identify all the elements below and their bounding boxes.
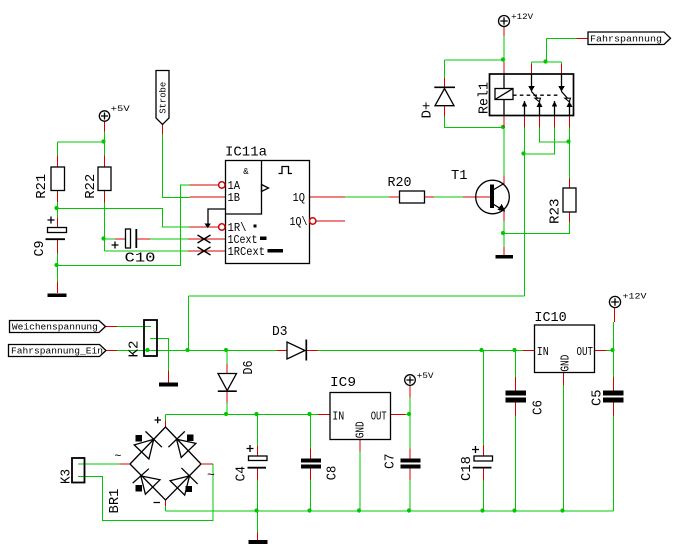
svg-text:+12V: +12V (511, 12, 534, 22)
svg-text:BR1: BR1 (107, 489, 123, 514)
svg-text:D+: D+ (420, 102, 436, 119)
svg-text:IC10: IC10 (534, 310, 566, 326)
svg-text:Strobe: Strobe (159, 82, 169, 114)
svg-text:R23: R23 (548, 199, 564, 225)
svg-text:K2: K2 (127, 341, 143, 358)
svg-text:D3: D3 (272, 324, 288, 340)
svg-text:1RCext: 1RCext (228, 246, 266, 259)
svg-text:C4: C4 (234, 466, 250, 482)
svg-text:K3: K3 (59, 469, 75, 484)
svg-text:R21: R21 (34, 174, 50, 199)
svg-text:T1: T1 (451, 168, 468, 184)
svg-text:C5: C5 (590, 390, 606, 407)
svg-text:1Q\: 1Q\ (290, 216, 308, 229)
svg-text:C8: C8 (325, 466, 341, 481)
svg-text:GND: GND (355, 421, 368, 438)
svg-text:OUT: OUT (577, 346, 594, 359)
svg-text:Fahrspannung: Fahrspannung (590, 35, 662, 45)
svg-text:~: ~ (115, 451, 122, 464)
svg-text:C7: C7 (383, 454, 399, 470)
svg-text:IC11a: IC11a (225, 145, 267, 161)
svg-text:+5V: +5V (111, 104, 131, 114)
svg-text:C18: C18 (459, 456, 475, 481)
svg-text:C10: C10 (125, 251, 156, 267)
svg-text:~: ~ (207, 468, 215, 483)
svg-text:+12V: +12V (623, 291, 648, 301)
svg-text:&: & (243, 167, 249, 177)
svg-text:OUT: OUT (371, 410, 387, 423)
svg-text:Weichenspannung: Weichenspannung (12, 322, 98, 332)
svg-text:1B: 1B (228, 192, 241, 205)
svg-text:D6: D6 (241, 361, 257, 375)
svg-text:Fahrspannung_Ein: Fahrspannung_Ein (11, 346, 103, 356)
svg-text:GND: GND (559, 355, 572, 372)
svg-text:R20: R20 (388, 175, 412, 191)
svg-text:C6: C6 (531, 400, 547, 415)
svg-text:1Q: 1Q (293, 192, 306, 205)
svg-text:IC9: IC9 (330, 375, 356, 391)
svg-text:IN: IN (537, 346, 549, 359)
svg-text:R22: R22 (83, 174, 99, 199)
svg-text:C9: C9 (32, 241, 48, 257)
svg-text:IN: IN (332, 410, 344, 423)
svg-text:+5V: +5V (417, 371, 435, 381)
svg-text:Rel1: Rel1 (477, 82, 493, 114)
